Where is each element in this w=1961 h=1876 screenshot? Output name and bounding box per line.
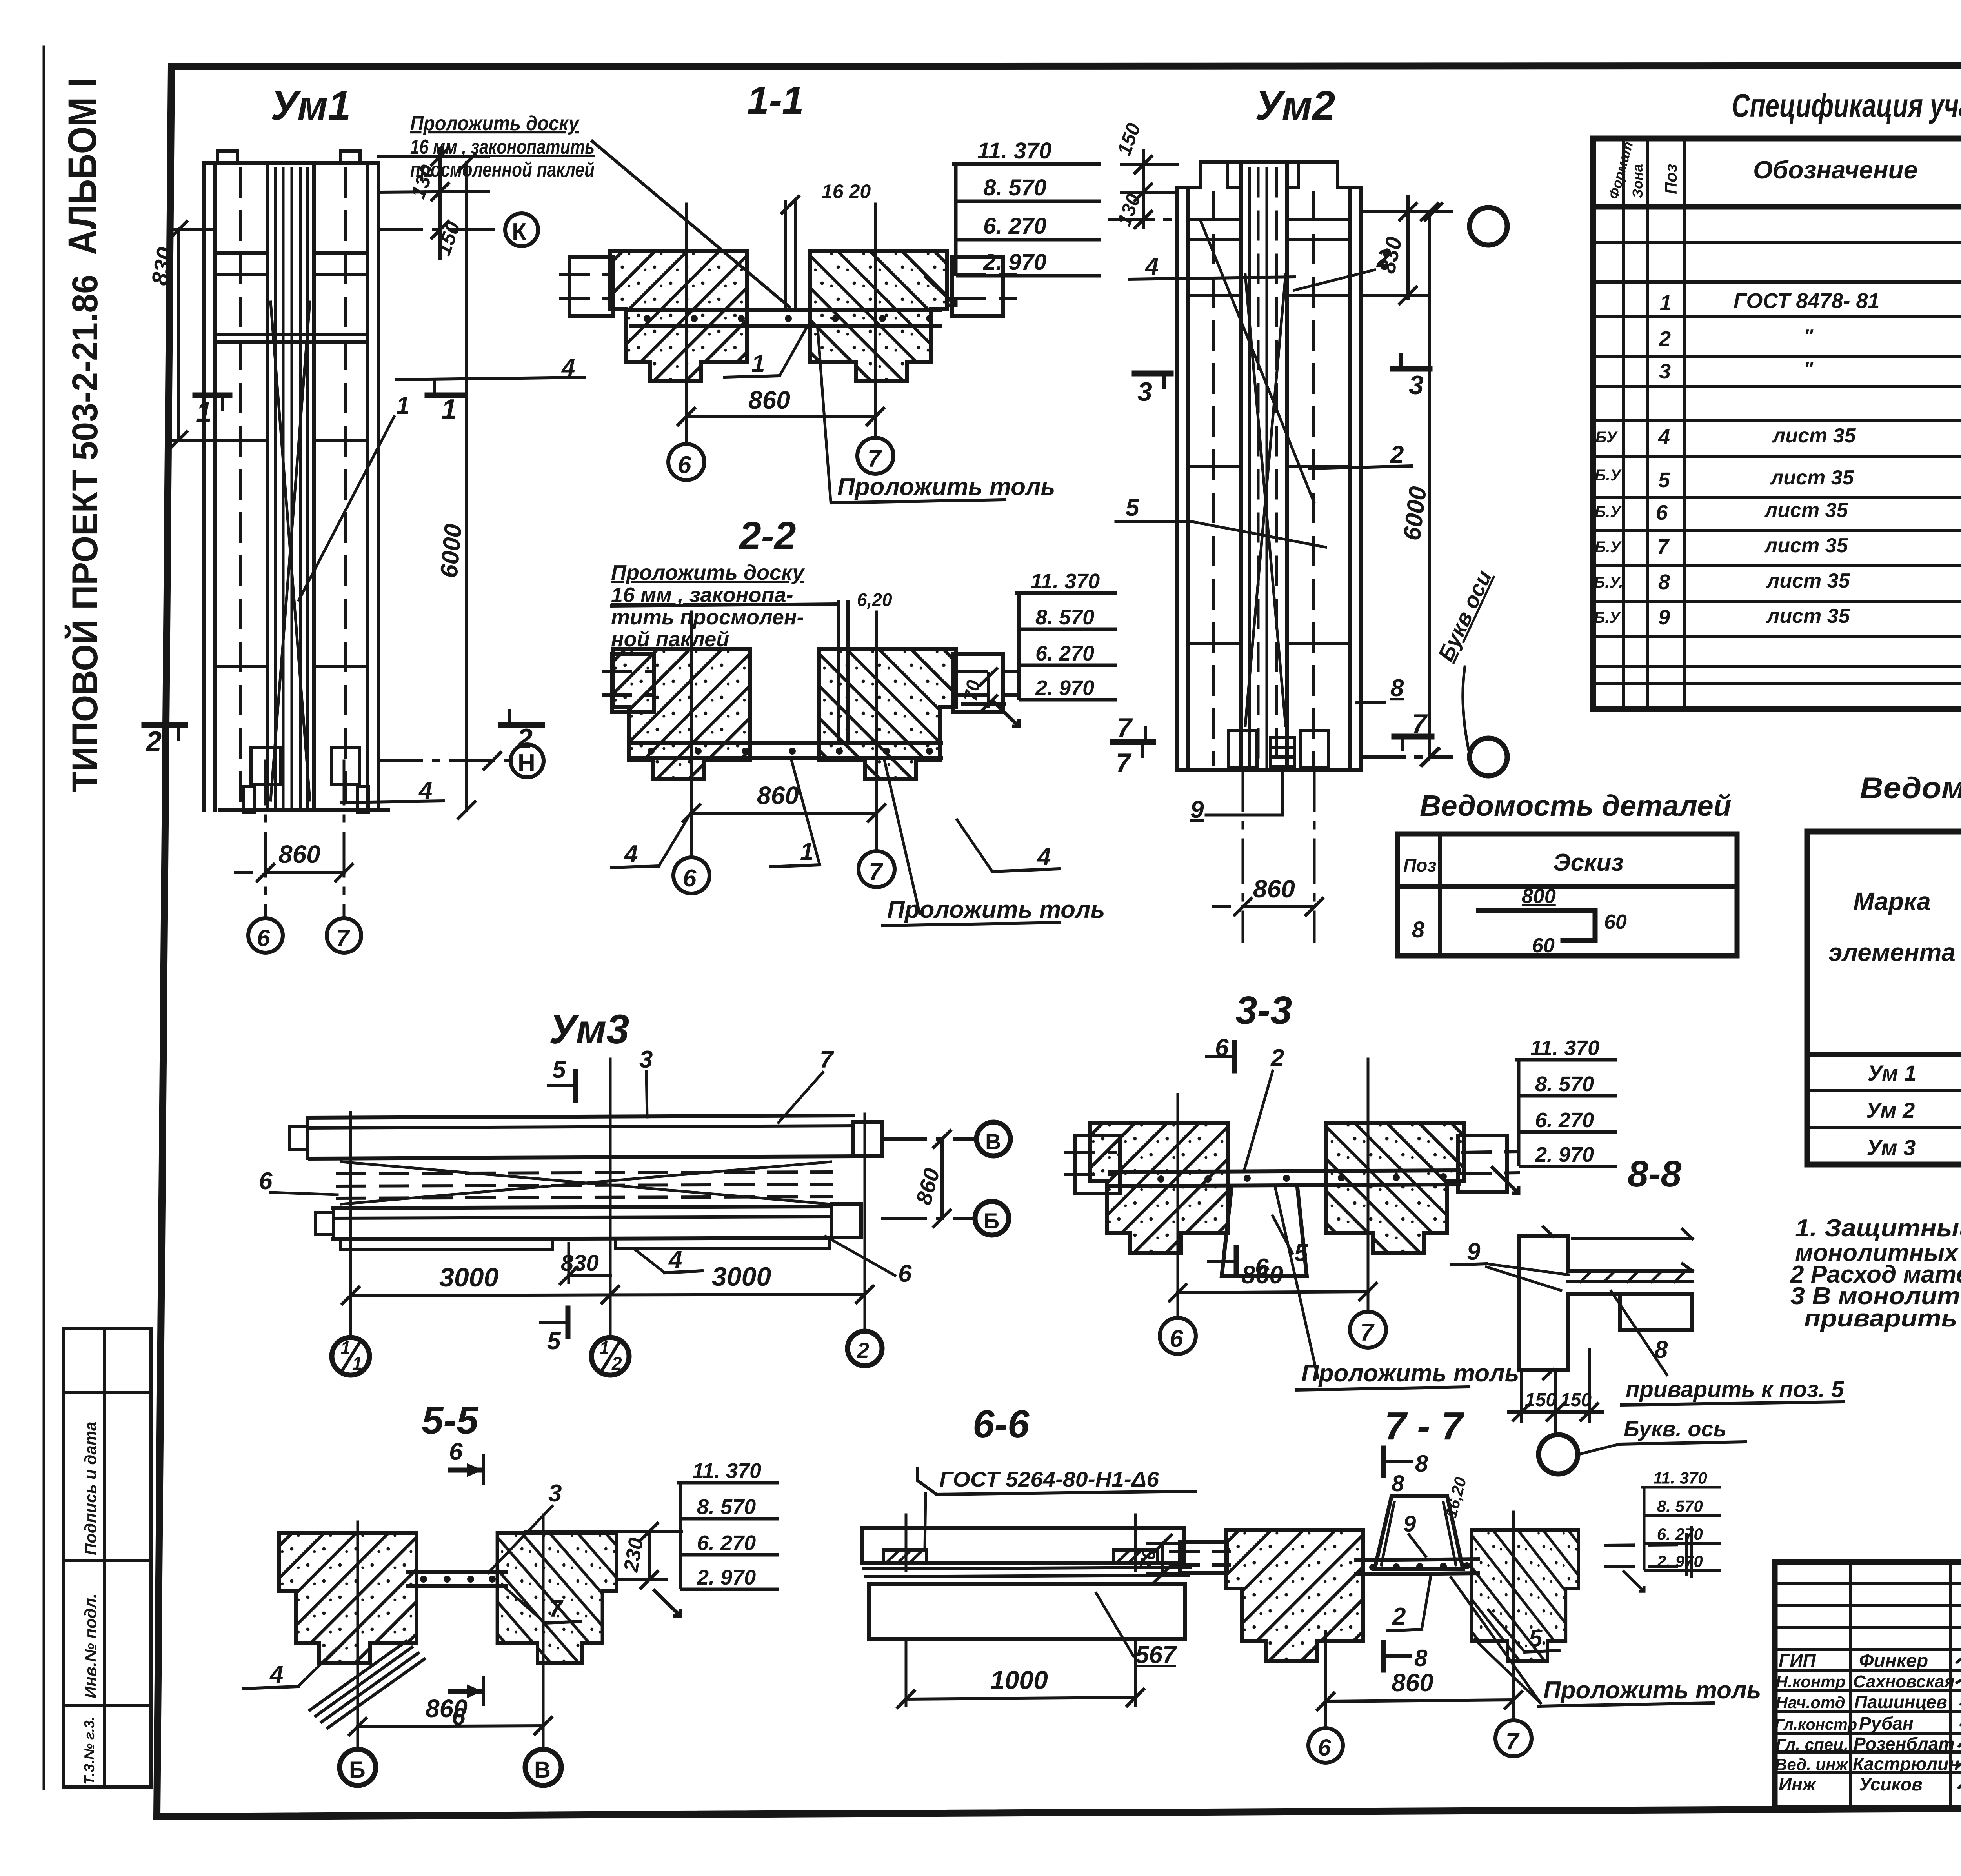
svg-text:Поз: Поз: [1662, 164, 1680, 194]
svg-text:Гл.констр: Гл.констр: [1775, 1716, 1857, 1733]
svg-text:7: 7: [1506, 1728, 1520, 1754]
svg-text:8: 8: [1658, 570, 1670, 594]
svg-text:8: 8: [1414, 1645, 1428, 1671]
svg-text:6: 6: [678, 451, 691, 479]
svg-text:16 20: 16 20: [822, 180, 871, 202]
svg-text:5: 5: [1294, 1239, 1308, 1266]
svg-text:лист 35: лист 35: [1764, 534, 1848, 557]
svg-text:7: 7: [1657, 535, 1670, 559]
svg-text:Проложить доску: Проложить доску: [611, 561, 805, 584]
svg-text:60: 60: [1604, 911, 1627, 933]
svg-text:Гл. спец.: Гл. спец.: [1776, 1735, 1848, 1754]
svg-text:1. Защитный слой бетона для: 1. Защитный слой бетона для рабочей арма…: [1795, 1215, 1961, 1242]
svg-text:Марка: Марка: [1853, 887, 1931, 915]
svg-text:6: 6: [257, 925, 270, 951]
svg-text:1: 1: [751, 350, 765, 377]
svg-text:лист 35: лист 35: [1764, 499, 1848, 522]
svg-text:7: 7: [869, 859, 883, 886]
svg-text:60: 60: [1532, 934, 1555, 957]
svg-text:Б.У: Б.У: [1595, 467, 1622, 484]
svg-text:Ум 2: Ум 2: [1866, 1098, 1915, 1123]
svg-text:1: 1: [352, 1353, 362, 1374]
svg-text:70: 70: [1136, 1547, 1161, 1572]
svg-text:7: 7: [1117, 713, 1133, 742]
svg-text:9: 9: [1658, 606, 1670, 629]
svg-text:Н.контр: Н.контр: [1776, 1672, 1845, 1691]
svg-text:Обозначение: Обозначение: [1753, 156, 1917, 184]
svg-text:Инж: Инж: [1779, 1774, 1817, 1794]
svg-text:860: 860: [1253, 875, 1295, 903]
svg-text:2: 2: [611, 1353, 622, 1374]
svg-text:АЛЬБОМ I: АЛЬБОМ I: [60, 78, 105, 255]
svg-text:4: 4: [624, 841, 638, 868]
svg-text:70: 70: [960, 679, 985, 703]
svg-text:6: 6: [1656, 501, 1668, 524]
svg-text:3000: 3000: [439, 1263, 498, 1292]
svg-text:Ум1: Ум1: [271, 83, 351, 129]
svg-text:″: ″: [1804, 326, 1814, 346]
svg-text:Зона: Зона: [1630, 164, 1646, 198]
svg-text:Подпись и дата: Подпись и дата: [81, 1422, 100, 1555]
svg-text:4: 4: [1658, 425, 1670, 449]
svg-text:Рубан: Рубан: [1859, 1713, 1914, 1734]
svg-text:3: 3: [639, 1046, 653, 1073]
svg-text:Ведомость деталей: Ведомость деталей: [1420, 789, 1732, 822]
svg-text:приварить к поз. 5: приварить к поз. 5: [1626, 1377, 1844, 1402]
svg-text:4: 4: [1037, 843, 1051, 870]
svg-text:150: 150: [1525, 1390, 1556, 1410]
svg-text:3: 3: [1659, 360, 1671, 383]
svg-text:Розенблат: Розенблат: [1854, 1734, 1954, 1754]
svg-text:5: 5: [1529, 1625, 1543, 1652]
svg-text:1: 1: [800, 838, 813, 865]
svg-text:9: 9: [1403, 1511, 1416, 1537]
svg-text:Ум3: Ум3: [549, 1006, 629, 1052]
svg-text:Букв. ось: Букв. ось: [1624, 1416, 1726, 1441]
svg-text:5: 5: [552, 1056, 566, 1083]
svg-text:150: 150: [1560, 1390, 1592, 1410]
svg-text:Финкер: Финкер: [1859, 1650, 1928, 1671]
svg-text:1-1: 1-1: [747, 78, 804, 122]
svg-text:9: 9: [1467, 1238, 1481, 1265]
svg-text:В: В: [534, 1757, 551, 1783]
svg-text:1: 1: [396, 392, 409, 419]
svg-text:Ум 1: Ум 1: [1868, 1061, 1917, 1085]
svg-text:1: 1: [340, 1337, 351, 1358]
svg-text:6-6: 6-6: [973, 1402, 1030, 1446]
svg-text:Т.З.№ г.3.: Т.З.№ г.3.: [81, 1716, 97, 1785]
svg-text:8: 8: [1415, 1450, 1428, 1477]
svg-text:3: 3: [1137, 377, 1152, 407]
svg-text:7: 7: [336, 925, 350, 951]
svg-text:Проложить толь: Проложить толь: [887, 896, 1105, 923]
svg-text:ТИПОВОЙ ПРОЕКТ 503-2-21.86: ТИПОВОЙ ПРОЕКТ 503-2-21.86: [64, 275, 105, 792]
svg-text:5-5: 5-5: [422, 1398, 479, 1442]
svg-text:860: 860: [1392, 1669, 1433, 1697]
svg-text:1: 1: [1660, 291, 1672, 315]
svg-text:5: 5: [547, 1328, 561, 1355]
svg-text:6: 6: [898, 1260, 912, 1287]
svg-text:7: 7: [1116, 748, 1132, 778]
svg-text:В: В: [985, 1129, 1001, 1154]
svg-text:Б: Б: [984, 1208, 999, 1233]
svg-text:6: 6: [683, 865, 697, 892]
svg-text:7: 7: [820, 1046, 834, 1073]
svg-text:Б.У: Б.У: [1595, 539, 1622, 556]
svg-text:Спецификация участков моноли: Спецификация участков монолитных: [1732, 87, 1961, 124]
svg-text:2: 2: [516, 723, 533, 755]
svg-text:7: 7: [1360, 1319, 1375, 1346]
svg-text:Эскиз: Эскиз: [1553, 849, 1624, 876]
svg-text:приварить к закладной дет: приварить к закладной детали ригеля и по…: [1804, 1305, 1961, 1332]
svg-text:830: 830: [561, 1250, 599, 1276]
svg-text:6: 6: [1255, 1254, 1269, 1281]
svg-text:567: 567: [1135, 1641, 1177, 1669]
svg-text:3-3: 3-3: [1235, 988, 1292, 1032]
svg-text:ГИП: ГИП: [1779, 1650, 1816, 1671]
svg-text:Инв.№ подл.: Инв.№ подл.: [81, 1594, 100, 1698]
svg-text:Поз: Поз: [1403, 855, 1437, 875]
svg-text:9: 9: [1190, 796, 1204, 823]
svg-text:6000: 6000: [435, 523, 467, 579]
svg-text:3: 3: [1409, 370, 1424, 400]
svg-text:8: 8: [1412, 917, 1425, 943]
svg-text:Усиков: Усиков: [1859, 1774, 1923, 1794]
svg-text:8: 8: [1390, 675, 1404, 702]
svg-text:лист 35: лист 35: [1772, 424, 1856, 447]
svg-text:Проложить доску: Проложить доску: [410, 112, 580, 135]
svg-text:ГОСТ 5264-80-Н1-Δ6: ГОСТ 5264-80-Н1-Δ6: [939, 1468, 1159, 1491]
svg-text:800: 800: [1522, 885, 1556, 908]
svg-text:6: 6: [259, 1168, 273, 1195]
svg-text:Пашинцев: Пашинцев: [1854, 1692, 1947, 1712]
svg-text:860: 860: [426, 1694, 468, 1723]
svg-text:860: 860: [748, 386, 790, 414]
svg-text:6,20: 6,20: [857, 590, 892, 610]
svg-text:7: 7: [1412, 709, 1428, 739]
svg-text:860: 860: [278, 840, 320, 868]
svg-text:лист 35: лист 35: [1766, 605, 1850, 628]
svg-text:4: 4: [668, 1246, 682, 1273]
svg-text:просмоленной паклей: просмоленной паклей: [410, 158, 595, 181]
svg-text:1000: 1000: [990, 1665, 1048, 1694]
svg-text:лист 35: лист 35: [1766, 570, 1850, 592]
svg-text:4: 4: [269, 1661, 283, 1688]
svg-text:3: 3: [548, 1480, 562, 1507]
svg-text:Б: Б: [349, 1757, 366, 1783]
svg-text:1: 1: [441, 394, 457, 425]
svg-text:Ум 3: Ум 3: [1867, 1135, 1916, 1160]
svg-text:3000: 3000: [712, 1262, 771, 1292]
svg-text:Проложить толь: Проложить толь: [837, 473, 1055, 500]
svg-text:Проложить толь: Проложить толь: [1301, 1360, 1519, 1387]
svg-text:Вед. инж: Вед. инж: [1775, 1755, 1849, 1774]
svg-text:Б.У: Б.У: [1594, 609, 1621, 626]
svg-text:1: 1: [196, 397, 212, 428]
svg-text:2: 2: [145, 726, 162, 757]
svg-text:5: 5: [1658, 468, 1670, 492]
svg-text:4: 4: [1144, 253, 1159, 280]
svg-text:2: 2: [1376, 245, 1390, 272]
svg-text:16 мм , законопатить: 16 мм , законопатить: [410, 136, 595, 158]
svg-text:7: 7: [549, 1595, 564, 1622]
svg-text:Нач.отд: Нач.отд: [1776, 1693, 1845, 1712]
svg-text:2-2: 2-2: [739, 514, 796, 558]
svg-text:2: 2: [1390, 441, 1404, 468]
svg-text:БУ: БУ: [1595, 429, 1618, 446]
svg-text:лист 35: лист 35: [1770, 466, 1854, 489]
svg-text:1: 1: [599, 1337, 609, 1358]
svg-text:элемента: элемента: [1828, 938, 1956, 966]
svg-text:ГОСТ 8478- 81: ГОСТ 8478- 81: [1734, 289, 1880, 313]
svg-text:8-8: 8-8: [1628, 1153, 1681, 1195]
svg-text:2: 2: [1392, 1603, 1406, 1630]
svg-text:Кастрюлин: Кастрюлин: [1853, 1754, 1959, 1774]
svg-text:7: 7: [868, 445, 882, 472]
svg-text:″: ″: [1804, 358, 1814, 378]
svg-text:2: 2: [1659, 327, 1671, 351]
svg-text:7 - 7: 7 - 7: [1384, 1404, 1464, 1448]
svg-text:6: 6: [1318, 1734, 1331, 1761]
svg-text:8: 8: [1392, 1471, 1404, 1496]
svg-text:тить просмолен-: тить просмолен-: [611, 606, 804, 629]
svg-text:5: 5: [1126, 494, 1140, 521]
svg-text:Б.У: Б.У: [1595, 503, 1622, 520]
svg-text:860: 860: [757, 781, 799, 810]
svg-text:6: 6: [1170, 1325, 1183, 1352]
svg-text:Ведомость расхода стали на: Ведомость расхода стали на элемент, кг.: [1860, 772, 1961, 805]
svg-text:Ум2: Ум2: [1255, 83, 1335, 129]
svg-text:Проложить толь: Проложить толь: [1543, 1677, 1761, 1704]
svg-text:К: К: [512, 218, 527, 246]
svg-text:2: 2: [857, 1338, 869, 1363]
svg-text:6: 6: [449, 1438, 463, 1465]
svg-text:2: 2: [1270, 1044, 1284, 1072]
svg-text:Б.У.: Б.У.: [1594, 574, 1623, 591]
svg-text:Сахновская: Сахновская: [1853, 1672, 1955, 1691]
